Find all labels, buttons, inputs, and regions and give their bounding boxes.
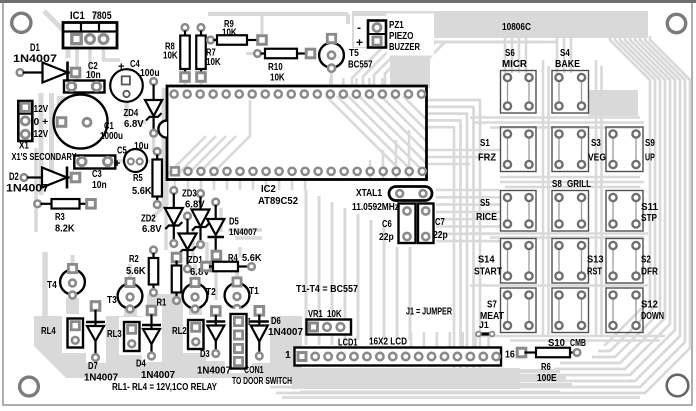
switch S14 xyxy=(501,239,537,284)
svg-text:S6: S6 xyxy=(505,48,515,59)
svg-text:DOWN: DOWN xyxy=(641,311,664,322)
relay connector RL2 xyxy=(183,315,209,353)
mounting hole bottom-right xyxy=(667,375,689,397)
diode D7 1N4007 xyxy=(86,298,106,363)
mounting hole top-left xyxy=(12,13,31,32)
svg-text:10n: 10n xyxy=(92,180,107,191)
svg-text:R5: R5 xyxy=(133,173,143,184)
svg-text:5.6K: 5.6K xyxy=(126,266,146,277)
resistor R2 5.6K xyxy=(150,247,157,254)
svg-text:6.8V: 6.8V xyxy=(124,119,144,130)
svg-text:1N4007: 1N4007 xyxy=(229,227,257,238)
svg-text:0 +: 0 + xyxy=(34,117,49,128)
svg-text:22p: 22p xyxy=(433,230,448,241)
svg-text:ZD2: ZD2 xyxy=(141,214,156,225)
svg-text:S8: S8 xyxy=(552,179,562,190)
svg-text:R10: R10 xyxy=(268,62,283,73)
svg-text:IC1: IC1 xyxy=(70,10,85,22)
switch S8 xyxy=(552,191,589,232)
switch S13 xyxy=(552,239,589,284)
wire verticals from band to S6 S4 xyxy=(504,38,507,73)
svg-text:AT89C52: AT89C52 xyxy=(258,196,298,207)
svg-text:10K: 10K xyxy=(222,28,237,39)
capacitor C1 1000u xyxy=(54,95,108,149)
svg-text:10806C: 10806C xyxy=(502,22,532,33)
svg-text:6.8V: 6.8V xyxy=(142,224,162,235)
wire horizontals feeding S1 row xyxy=(428,149,500,152)
wire stubs IC2 bottom pads xyxy=(174,174,177,190)
wire horizontal traces between switch rows xyxy=(470,116,640,119)
transistor T4 xyxy=(60,270,85,295)
svg-text:S5: S5 xyxy=(480,198,490,209)
svg-text:MICR: MICR xyxy=(502,59,528,70)
svg-text:6.8V: 6.8V xyxy=(185,200,205,211)
svg-text:CMB: CMB xyxy=(570,338,586,349)
resistor R7 10K xyxy=(198,24,205,31)
svg-text:LCD1: LCD1 xyxy=(338,338,358,349)
connector PZ1 piezo buzzer xyxy=(354,16,390,47)
svg-text:T1-T4 = BC557: T1-T4 = BC557 xyxy=(296,284,358,295)
diode D2 1N4007 xyxy=(21,174,28,181)
switch S12 xyxy=(606,288,643,333)
svg-text:X1: X1 xyxy=(19,141,29,152)
svg-text:10K: 10K xyxy=(163,51,178,62)
svg-text:RL2: RL2 xyxy=(172,326,187,337)
svg-text:RL4: RL4 xyxy=(41,326,56,337)
svg-text:PIEZO: PIEZO xyxy=(389,31,414,42)
svg-text:D7: D7 xyxy=(88,361,98,372)
svg-text:CON1: CON1 xyxy=(244,365,264,376)
wire trace top middle horizontal xyxy=(208,12,348,16)
svg-text:16: 16 xyxy=(505,350,515,361)
svg-text:7805: 7805 xyxy=(92,10,112,22)
resistor R6 100E xyxy=(517,348,526,357)
svg-text:-: - xyxy=(357,21,361,35)
svg-text:+: + xyxy=(118,61,124,73)
svg-text:DFR: DFR xyxy=(641,267,659,278)
svg-text:10n: 10n xyxy=(86,70,101,81)
svg-text:C3: C3 xyxy=(92,169,102,180)
svg-text:MEAT: MEAT xyxy=(480,311,505,322)
svg-text:5.6K: 5.6K xyxy=(132,186,152,197)
zener diode ZD4 6.8V xyxy=(150,78,157,85)
svg-text:VR1: VR1 xyxy=(308,309,323,320)
svg-text:IC2: IC2 xyxy=(261,184,276,195)
svg-text:VEG: VEG xyxy=(588,153,606,164)
switch S9 xyxy=(606,127,643,172)
wire stubs R8 R7 to IC2 xyxy=(184,77,187,88)
svg-text:C4: C4 xyxy=(130,59,140,70)
svg-text:5.6K: 5.6K xyxy=(242,253,262,264)
wire vertical traces between switch columns xyxy=(542,60,545,336)
svg-text:S11: S11 xyxy=(641,202,658,213)
svg-text:1N4007: 1N4007 xyxy=(13,53,57,65)
resistor R8 10K xyxy=(182,24,189,31)
capacitor C2 10n xyxy=(64,81,105,93)
diode D1 1N4007 xyxy=(17,69,24,76)
svg-text:PZ1: PZ1 xyxy=(389,20,404,31)
svg-text:+: + xyxy=(356,36,363,50)
switch S6 xyxy=(501,71,537,114)
svg-text:XTAL1: XTAL1 xyxy=(356,188,382,199)
svg-text:1N4007: 1N4007 xyxy=(6,183,49,195)
wire traces centre cluster xyxy=(164,195,167,250)
svg-text:RST: RST xyxy=(587,267,603,278)
capacitor C4 100u xyxy=(110,69,143,102)
wire stubs IC2 top pads xyxy=(329,78,332,92)
wire staircase right of IC2 xyxy=(428,100,480,385)
copper pour top band xyxy=(352,11,648,88)
svg-text:X1'S SECONDARY: X1'S SECONDARY xyxy=(12,152,77,163)
svg-text:C7: C7 xyxy=(435,217,445,228)
capacitor C6 22p xyxy=(399,204,416,244)
svg-text:STP: STP xyxy=(641,213,657,224)
capacitor C3 10n xyxy=(74,156,115,169)
switch S5 xyxy=(501,191,537,232)
svg-text:FRZ: FRZ xyxy=(478,153,496,164)
svg-text:UP: UP xyxy=(645,153,655,164)
svg-text:GRILL: GRILL xyxy=(567,179,591,190)
svg-text:S7: S7 xyxy=(487,300,497,311)
connector LCD1 16X2 LCD xyxy=(295,348,502,366)
svg-text:S14: S14 xyxy=(478,255,495,266)
svg-text:10u: 10u xyxy=(134,141,149,152)
svg-text:BAKE: BAKE xyxy=(555,59,580,70)
svg-text:1N4007: 1N4007 xyxy=(197,366,231,377)
svg-text:S4: S4 xyxy=(560,48,570,59)
wire staircase IC2 top to band xyxy=(352,42,448,86)
wire horizontal bundle right of C7 xyxy=(436,189,500,192)
svg-text:8.2K: 8.2K xyxy=(55,224,75,235)
resistor R10 10K xyxy=(254,50,261,57)
transistor T2 xyxy=(183,284,208,309)
diode D3 1N4007 xyxy=(206,303,226,361)
svg-text:1: 1 xyxy=(285,350,291,361)
connector X1 transformer secondary xyxy=(18,101,32,141)
switch S4 xyxy=(552,71,589,114)
wire trace bundle between C1 and IC2 xyxy=(162,88,169,205)
resistor R3 8.2K xyxy=(34,201,41,208)
zener diode ZD1 6.8V xyxy=(184,213,191,220)
svg-text:S2: S2 xyxy=(641,255,651,266)
svg-text:D3: D3 xyxy=(200,349,210,360)
svg-text:S12: S12 xyxy=(641,300,658,311)
svg-text:D2: D2 xyxy=(9,171,19,183)
svg-text:RICE: RICE xyxy=(476,212,497,223)
relay connector RL3 xyxy=(119,317,145,355)
svg-text:RL3: RL3 xyxy=(107,329,122,340)
svg-text:10K: 10K xyxy=(206,57,221,68)
zener diode ZD3 6.8V xyxy=(197,190,204,197)
diode D5 1N4007 xyxy=(212,199,219,206)
svg-text:100E: 100E xyxy=(537,373,557,384)
svg-text:BUZZER: BUZZER xyxy=(389,42,420,53)
relay connector RL1 and CON1 door switch xyxy=(225,309,252,373)
mounting hole bottom-left xyxy=(20,377,39,396)
voltage regulator IC1 7805 xyxy=(63,23,117,49)
switch S10 xyxy=(552,288,589,333)
resistor R9 10K xyxy=(207,37,214,44)
svg-text:ZD3: ZD3 xyxy=(182,189,197,200)
svg-text:100u: 100u xyxy=(140,68,160,79)
resistor R4 5.6K xyxy=(202,262,211,271)
svg-text:D6: D6 xyxy=(271,316,281,327)
svg-text:ZD4: ZD4 xyxy=(124,108,139,119)
svg-text:12V: 12V xyxy=(34,129,49,140)
transistor T5 BC557 xyxy=(319,43,344,68)
switch S11 xyxy=(606,191,643,232)
svg-text:16X2 LCD: 16X2 LCD xyxy=(369,337,407,348)
svg-text:T1: T1 xyxy=(249,286,259,297)
switch S3 xyxy=(552,127,589,172)
switch S7 xyxy=(501,288,537,333)
svg-text:1N4007: 1N4007 xyxy=(268,327,303,338)
svg-text:RL1- RL4 = 12V,1CO RELAY: RL1- RL4 = 12V,1CO RELAY xyxy=(112,382,217,393)
switch S2 xyxy=(606,239,643,284)
wire traces below LCD xyxy=(292,368,520,389)
wire traces left column verticals xyxy=(39,93,44,195)
svg-text:D5: D5 xyxy=(229,217,239,228)
wire traces IC2 bottom to LCD xyxy=(305,190,308,345)
wire staircase band to right edge and bottom corner xyxy=(604,36,650,345)
svg-text:22p: 22p xyxy=(379,232,394,243)
svg-text:R4: R4 xyxy=(228,253,238,264)
transistor T1 xyxy=(225,283,250,308)
crystal XTAL1 11.0592MHz xyxy=(389,187,432,201)
svg-text:1N4007: 1N4007 xyxy=(141,370,175,381)
transistor T3 xyxy=(118,284,143,309)
svg-text:S3: S3 xyxy=(591,138,601,149)
svg-text:R3: R3 xyxy=(55,212,65,223)
capacitor C5 10u xyxy=(124,149,147,172)
svg-text:C5: C5 xyxy=(117,146,127,157)
svg-text:D4: D4 xyxy=(136,359,146,370)
svg-text:R2: R2 xyxy=(129,254,139,265)
mounting hole top-right xyxy=(667,14,685,32)
zener diode ZD2 6.8V xyxy=(171,187,178,194)
svg-text:12V: 12V xyxy=(34,104,49,115)
copper pour block right of S4 xyxy=(588,90,638,116)
wire traces top-left near IC1 xyxy=(44,11,68,58)
wire stubs LCD top pins xyxy=(410,332,413,347)
svg-text:T3: T3 xyxy=(107,295,117,306)
relay connector RL4 xyxy=(62,314,89,353)
svg-text:J1 = JUMPER: J1 = JUMPER xyxy=(406,307,452,318)
svg-text:S10: S10 xyxy=(548,338,565,349)
svg-text:10K: 10K xyxy=(327,309,342,320)
svg-text:T4: T4 xyxy=(47,280,57,291)
resistor R1 xyxy=(172,253,181,262)
svg-text:R6: R6 xyxy=(541,362,551,373)
svg-text:T2: T2 xyxy=(206,287,216,298)
diode D4 1N4007 xyxy=(142,306,162,362)
svg-text:10K: 10K xyxy=(270,73,285,84)
svg-text:BC557: BC557 xyxy=(348,60,373,71)
svg-text:C6: C6 xyxy=(382,219,392,230)
jumper J1 xyxy=(479,332,493,335)
copper pour bottom-left ground plane xyxy=(34,316,302,378)
diode D6 1N4007 xyxy=(250,305,270,363)
svg-text:START: START xyxy=(474,267,503,278)
svg-text:S9: S9 xyxy=(645,138,655,149)
preset VR1 10K xyxy=(307,320,352,335)
svg-text:TO DOOR SWITCH: TO DOOR SWITCH xyxy=(232,376,292,387)
svg-text:11.0592MHz: 11.0592MHz xyxy=(352,202,399,213)
resistor R5 5.6K xyxy=(154,148,161,155)
svg-text:1000u: 1000u xyxy=(100,131,123,142)
svg-text:S13: S13 xyxy=(587,255,604,266)
svg-text:T5: T5 xyxy=(349,48,359,59)
svg-text:S1: S1 xyxy=(480,138,490,149)
capacitor C7 22p xyxy=(418,204,434,244)
switch S1 xyxy=(501,127,537,172)
